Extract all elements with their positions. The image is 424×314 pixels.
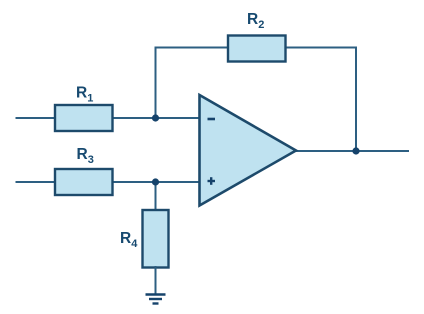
- wire: R4 to ground: [155, 266, 157, 294]
- resistor R2: [228, 36, 286, 62]
- wire: node to R4: [155, 182, 157, 211]
- wire: feedback drop to output node: [355, 47, 357, 152]
- node: output junction: [352, 147, 359, 154]
- wire: feedback vertical riser: [155, 48, 157, 119]
- ground: [146, 295, 166, 304]
- wire: feedback top, left segment: [155, 47, 230, 49]
- minus pin marking: [208, 118, 216, 121]
- node: inverting input junction: [152, 114, 159, 121]
- resistor R4: [143, 210, 169, 268]
- wire: feedback top, right segment: [284, 47, 357, 49]
- node: non-inverting input junction: [152, 178, 159, 185]
- resistor R1: [55, 105, 113, 131]
- wire: inverting input left lead: [16, 117, 57, 119]
- wire: R1 to op-amp inverting input: [111, 117, 200, 119]
- op-amp U1: [200, 95, 297, 206]
- resistor R3: [55, 169, 113, 195]
- wire: R3 to op-amp non-inverting input: [111, 181, 200, 183]
- wire: non-inverting input left lead: [16, 181, 57, 183]
- plus pin marking: [208, 177, 216, 185]
- wire: output: [294, 150, 409, 152]
